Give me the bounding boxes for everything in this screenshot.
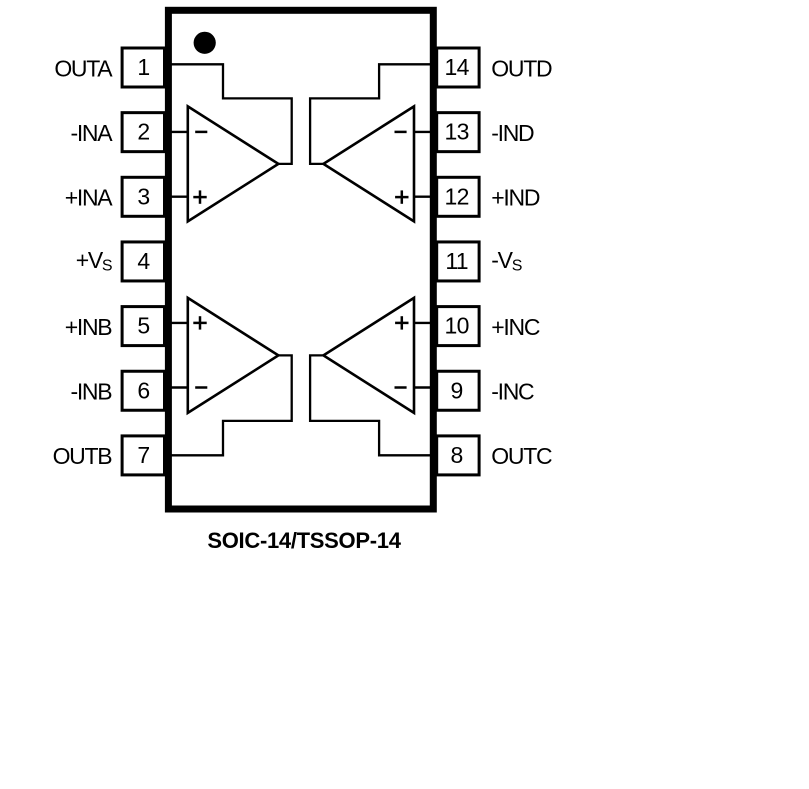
svg-text:OUTC: OUTC	[491, 443, 552, 469]
svg-text:3: 3	[137, 183, 149, 209]
svg-text:+INA: +INA	[65, 185, 114, 211]
pin label -Vs (pin 11)	[491, 247, 521, 275]
svg-text:6: 6	[137, 377, 149, 403]
pin label OUTA (pin 1)	[54, 55, 113, 81]
pin box 10	[437, 307, 479, 346]
wire pin13 -IND stub	[414, 131, 435, 133]
svg-text:-INB: -INB	[70, 379, 112, 405]
pin label -INC (pin 9)	[491, 379, 534, 405]
pin label -IND (pin 13)	[491, 120, 534, 146]
svg-text:OUTA: OUTA	[54, 55, 113, 81]
pin label -INA (pin 2)	[70, 120, 113, 146]
svg-text:10: 10	[445, 313, 469, 339]
caption SOIC-14/TSSOP-14	[207, 528, 401, 553]
svg-text:5: 5	[137, 313, 149, 339]
op-amp B inverting input minus sign	[195, 386, 207, 389]
op-amp A triangle	[188, 106, 279, 221]
wire pin14 OUTD to op-amp D output	[310, 64, 435, 164]
op-amp C non-inverting input plus sign	[395, 316, 408, 329]
pin box 11	[437, 242, 479, 281]
wire pin5 +INB stub	[167, 322, 188, 324]
pin box 8	[437, 436, 479, 475]
pin 1 indicator dot	[194, 32, 216, 54]
pin label +Vs (pin 4)	[76, 247, 112, 275]
op-amp A inverting input minus sign	[195, 131, 207, 134]
svg-text:+IND: +IND	[491, 185, 540, 211]
pin label OUTD (pin 14)	[491, 55, 552, 81]
wire pin9 -INC stub	[414, 386, 435, 388]
pin box 7	[122, 436, 164, 475]
svg-text:-IND: -IND	[491, 120, 534, 146]
pin label -INB (pin 6)	[70, 379, 112, 405]
svg-text:+INB: +INB	[65, 314, 113, 340]
svg-text:1: 1	[137, 54, 149, 80]
pin box 12	[437, 177, 479, 216]
op-amp D non-inverting input plus sign	[395, 190, 408, 203]
IC body U1 (SOIC-14/TSSOP-14 outline)	[168, 10, 433, 509]
wire pin7 OUTB to op-amp B output	[167, 355, 292, 455]
svg-text:-INA: -INA	[70, 120, 113, 146]
pin box 4	[122, 242, 164, 281]
pin box 9	[437, 371, 479, 410]
pin label +INC (pin 10)	[491, 314, 540, 340]
op-amp C triangle	[323, 298, 414, 413]
pin label OUTB (pin 7)	[53, 443, 113, 469]
wire pin8 OUTC to op-amp C output	[310, 355, 435, 455]
pin box 6	[122, 371, 164, 410]
pin box 2	[122, 113, 164, 152]
svg-text:+INC: +INC	[491, 314, 540, 340]
wire pin12 +IND stub	[414, 195, 435, 197]
wire pin1 OUTA to op-amp A output	[167, 64, 292, 164]
op-amp D triangle	[323, 106, 414, 221]
svg-text:12: 12	[445, 183, 469, 209]
svg-text:9: 9	[451, 377, 463, 403]
svg-text:14: 14	[445, 54, 470, 80]
svg-text:OUTD: OUTD	[491, 55, 552, 81]
svg-text:8: 8	[451, 442, 463, 468]
pin box 3	[122, 177, 164, 216]
pin label +IND (pin 12)	[491, 185, 540, 211]
svg-text:2: 2	[137, 119, 149, 145]
wire pin2 -INA stub	[167, 131, 188, 133]
pin label +INB (pin 5)	[65, 314, 113, 340]
svg-text:7: 7	[137, 442, 149, 468]
svg-text:-INC: -INC	[491, 379, 534, 405]
pin box 5	[122, 307, 164, 346]
pin box 14	[437, 48, 479, 87]
pin box 13	[437, 113, 479, 152]
svg-text:13: 13	[445, 119, 469, 145]
pin label +INA (pin 3)	[65, 185, 114, 211]
svg-text:4: 4	[137, 248, 150, 274]
op-amp A non-inverting input plus sign	[193, 190, 206, 203]
op-amp B non-inverting input plus sign	[193, 316, 206, 329]
wire pin3 +INA stub	[167, 195, 188, 197]
svg-text:SOIC-14/TSSOP-14: SOIC-14/TSSOP-14	[207, 528, 401, 553]
svg-text:11: 11	[445, 248, 467, 274]
svg-text:OUTB: OUTB	[53, 443, 113, 469]
op-amp B triangle	[188, 298, 279, 413]
wire pin6 -INB stub	[167, 386, 188, 388]
pin box 1	[122, 48, 164, 87]
op-amp D inverting input minus sign	[395, 131, 407, 134]
pin label OUTC (pin 8)	[491, 443, 552, 469]
wire pin10 +INC stub	[414, 322, 435, 324]
op-amp C inverting input minus sign	[395, 386, 407, 389]
